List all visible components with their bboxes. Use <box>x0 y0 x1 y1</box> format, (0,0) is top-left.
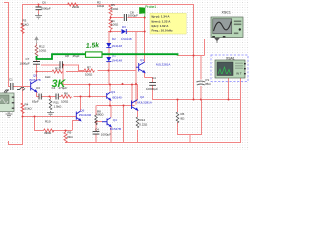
svg-text:C4: C4 <box>95 127 99 131</box>
wire diode column x108 <box>108 31 110 85</box>
svg-text:BD140: BD140 <box>113 95 123 99</box>
svg-text:BC547B: BC547B <box>30 78 41 82</box>
svg-text:10kΩ: 10kΩ <box>97 4 105 8</box>
svg-text:R6: R6 <box>64 91 68 95</box>
resistor R3 <box>21 23 24 34</box>
wire right rail V x193 <box>193 4 195 100</box>
svg-text:1000µF: 1000µF <box>20 62 30 66</box>
resistor R5 <box>109 5 112 15</box>
capacitor C1 input <box>11 83 13 90</box>
wire top rail <box>22 4 193 6</box>
speaker / transducer P1 <box>196 81 205 85</box>
wire H y70 R7 row <box>78 70 136 72</box>
wire Q4 collector/emitter <box>110 106 112 143</box>
capacitor C2 45uF <box>60 61 62 68</box>
svg-text:1000µF: 1000µF <box>101 132 111 136</box>
wire H y99.5 bottom-right bus <box>152 99 240 101</box>
svg-text:D3: D3 <box>122 25 126 29</box>
wire V2 left bias column <box>22 4 24 145</box>
svg-text:R6: R6 <box>181 112 185 116</box>
svg-text:C8: C8 <box>65 54 69 58</box>
wire H y130 R10 row <box>34 130 73 132</box>
svg-text:R14: R14 <box>140 118 146 122</box>
svg-text:51kΩ: 51kΩ <box>25 106 33 110</box>
svg-text:XSC1: XSC1 <box>222 10 231 14</box>
resistor R11 <box>49 99 52 110</box>
svg-text:R7: R7 <box>87 65 91 69</box>
svg-text:1000µF: 1000µF <box>41 7 51 11</box>
diode D1 <box>106 54 122 63</box>
svg-text:35Ω: 35Ω <box>205 82 211 86</box>
function generator XFG bottom-left <box>0 93 14 112</box>
capacitor C6 <box>36 7 42 10</box>
svg-text:2SC2240: 2SC2240 <box>79 113 92 117</box>
resistor R13 <box>52 70 63 73</box>
capacitor C1 output 10000uF <box>149 83 156 86</box>
wire R9 column <box>65 130 67 143</box>
wire H y31 diode D3 row <box>108 31 145 33</box>
wire H y96.5 C3/R6 row <box>36 96 106 98</box>
svg-text:51kΩ: 51kΩ <box>22 22 30 26</box>
wire V x123.5 <box>123 106 125 143</box>
wire H y71.5 R13 row <box>36 71 89 73</box>
svg-text:1N4148: 1N4148 <box>121 37 132 41</box>
wire C6 leads <box>38 4 40 14</box>
spectrum analyzer XSA1 <box>215 56 246 78</box>
resistor R6 <box>61 95 71 98</box>
wire Q5 emitter <box>36 92 38 97</box>
capacitor C8 <box>124 14 126 21</box>
transistor Q4 <box>102 118 111 127</box>
svg-text:BC547B: BC547B <box>110 127 121 131</box>
wire V x63 cap feedback <box>62 65 64 85</box>
wire H y84.5 <box>63 84 138 86</box>
wire H y105.5 <box>97 105 135 107</box>
svg-text:100Ω: 100Ω <box>61 99 69 103</box>
transistor Q1 <box>136 62 145 73</box>
svg-text:1kΩ: 1kΩ <box>45 75 51 79</box>
wire V x145 probe/collector column <box>144 17 146 62</box>
diode D2 <box>106 37 122 48</box>
small connector glyph above XFG <box>17 88 25 91</box>
svg-text:C4: C4 <box>52 86 56 90</box>
resistor R7 <box>84 69 94 72</box>
svg-text:Q6: Q6 <box>80 108 84 112</box>
wire bottom-left hook <box>8 141 23 145</box>
wire bottom rail <box>65 142 241 144</box>
ground under XFG <box>6 112 13 117</box>
resistor R2 22k horizontal top <box>68 3 78 6</box>
svg-text:1N4148: 1N4148 <box>112 44 123 48</box>
capacitor C7 <box>33 62 40 65</box>
wire C7 column <box>36 56 38 72</box>
virtual resistor green box 1.5k <box>86 42 103 57</box>
svg-text:C3: C3 <box>36 86 40 90</box>
svg-text:Probe1: Probe1 <box>145 5 156 9</box>
svg-text:45µF: 45µF <box>73 54 80 58</box>
svg-text:1.5k: 1.5k <box>86 42 101 50</box>
green output net wire <box>37 54 178 59</box>
transistor Q5 <box>31 81 37 92</box>
svg-text:63pF: 63pF <box>32 99 39 103</box>
svg-text:MJL3281A: MJL3281A <box>138 101 152 105</box>
ground under C6 <box>35 14 42 19</box>
svg-text:390Ω: 390Ω <box>44 131 52 135</box>
wire Q6 emitter branch <box>72 121 81 131</box>
resistor R16 load <box>176 112 179 123</box>
svg-text:1.5kΩ: 1.5kΩ <box>54 104 63 108</box>
transistor Q2 <box>132 100 138 111</box>
svg-text:1000µF: 1000µF <box>128 13 138 17</box>
svg-text:I(dc): 1.62 A: I(dc): 1.62 A <box>152 24 170 28</box>
oscilloscope XSC1 <box>211 10 243 43</box>
svg-text:100Ω: 100Ω <box>39 48 47 52</box>
wire H y116.5 base row <box>22 116 76 118</box>
wire H y64.8 C2 row <box>41 64 79 66</box>
wire V x78.5 <box>78 65 80 71</box>
svg-text:C4: C4 <box>152 76 156 80</box>
small glyph near input <box>4 90 9 93</box>
wire V x89 <box>89 85 91 98</box>
resistor R14 <box>136 117 139 128</box>
transistor Q6 <box>76 111 81 121</box>
resistor R10 <box>44 129 55 132</box>
svg-text:Q4: Q4 <box>113 118 117 122</box>
svg-text:22kΩ: 22kΩ <box>72 5 80 9</box>
svg-text:Q2: Q2 <box>140 95 144 99</box>
selection dashed rect around XSA1 <box>211 55 248 82</box>
wire H y17 to C8 <box>110 17 145 19</box>
resistor R1 <box>109 19 112 30</box>
wire Q3 collector/emitter column <box>109 85 111 106</box>
svg-text:100Ω: 100Ω <box>111 22 119 26</box>
svg-text:Freq.: 10.0 kHz: Freq.: 10.0 kHz <box>152 29 174 33</box>
transistor Q3 <box>107 92 111 100</box>
wire C1cap input row y86 <box>8 86 31 88</box>
wire R12 top arrow lead <box>36 43 38 46</box>
svg-text:Q3: Q3 <box>111 90 115 94</box>
resistor R12 <box>35 46 38 57</box>
capacitor C4 270uF <box>56 94 58 100</box>
svg-text:100Ω: 100Ω <box>111 7 119 11</box>
svg-text:Q1: Q1 <box>140 58 144 62</box>
svg-text:MJL3281A: MJL3281A <box>156 63 170 67</box>
svg-text:Q5: Q5 <box>33 73 37 77</box>
wire R16 column <box>177 100 202 144</box>
wire Q6 collector <box>80 97 82 111</box>
probe readout yellow box <box>150 13 186 34</box>
probe1 flag <box>140 5 157 17</box>
diode D3 horizontal <box>121 25 132 41</box>
svg-text:R13: R13 <box>55 66 61 70</box>
wire H y55.5 green-to-right <box>178 55 205 57</box>
svg-text:33Ω: 33Ω <box>67 135 73 139</box>
wire V x204.5 scope lead <box>204 39 206 56</box>
wire Q2 collector <box>137 84 139 100</box>
svg-text:1N4148: 1N4148 <box>112 58 123 62</box>
wire left vertical V1 <box>8 2 10 86</box>
wire Q2 base vertical x132 <box>131 85 133 106</box>
svg-text:270µF: 270µF <box>59 86 68 90</box>
svg-text:10000µF: 10000µF <box>146 87 158 91</box>
wire Q5 collector <box>36 72 38 81</box>
wire V x34 <box>34 117 36 131</box>
svg-text:C6: C6 <box>42 1 46 5</box>
wire top-left stub <box>4 2 8 4</box>
wire R11 stub <box>50 97 52 99</box>
wire Q4 base stub <box>96 121 102 123</box>
resistor R4 <box>21 103 24 113</box>
svg-text:0.22Ω: 0.22Ω <box>139 123 148 127</box>
capacitor C4 bottom <box>93 131 100 134</box>
wire R8/C4 column <box>95 106 97 143</box>
svg-text:R10: R10 <box>45 120 51 124</box>
svg-text:IN T: IN T <box>236 71 242 75</box>
svg-text:I(p-p): 1.34 A: I(p-p): 1.34 A <box>152 15 171 19</box>
svg-text:100Ω: 100Ω <box>85 72 93 76</box>
svg-text:680Ω: 680Ω <box>96 113 104 117</box>
wire V x240 right edge down <box>240 100 242 144</box>
resistor R9 <box>64 132 67 142</box>
svg-text:D2: D2 <box>112 37 116 41</box>
svg-text:R9: R9 <box>68 130 72 134</box>
wire speaker column <box>200 56 202 101</box>
wire V x136 Q1/Q2 base column <box>135 32 137 105</box>
svg-text:C1: C1 <box>9 77 13 81</box>
resistor R8 <box>95 115 98 125</box>
svg-text:I(rms): 1.22 A: I(rms): 1.22 A <box>152 19 172 23</box>
wire Q2 emitter / R14 column <box>137 110 139 143</box>
svg-text:C7: C7 <box>26 57 30 61</box>
ground under R11 <box>47 111 54 116</box>
wire XSA1 leads <box>229 78 241 100</box>
on-page connector arrow above R12 <box>35 37 38 45</box>
wire middle column R5/R1 <box>110 4 112 31</box>
capacitor C3 <box>39 94 41 100</box>
wire Q1 emitter / C1 column <box>145 73 153 101</box>
